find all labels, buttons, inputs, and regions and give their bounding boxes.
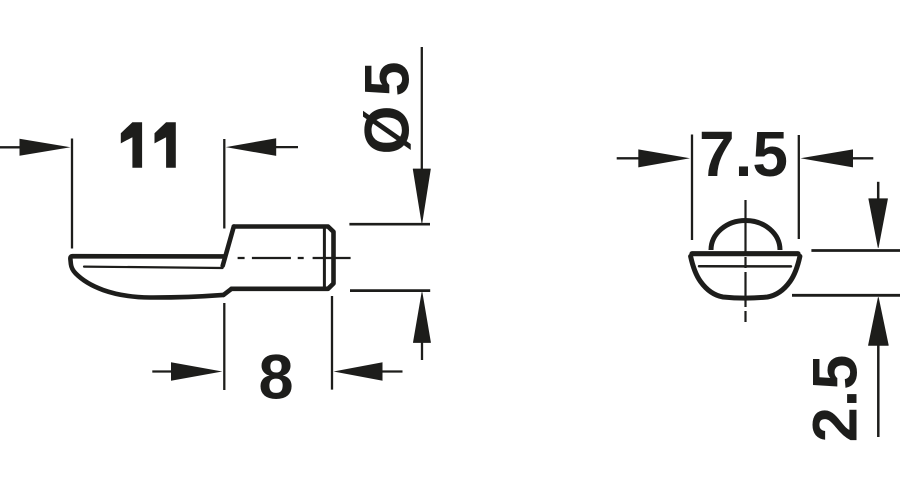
vertical centerline (dash-dot)	[744, 200, 746, 322]
dim 7.5: left extension line	[691, 135, 693, 241]
dim 11: left arrow	[0, 139, 71, 156]
dim 2.5: top arrow (down)	[869, 182, 888, 248]
dim 8: left arrow	[152, 362, 222, 380]
dim Ø5: bottom extension line	[350, 289, 430, 292]
part outline: spoon body	[223, 227, 234, 266]
dim 7.5: right arrow	[801, 149, 874, 167]
centerline of cylinder (dash-dot)	[238, 257, 351, 259]
dim 11: label "11"	[121, 122, 176, 168]
dim 8: left extension line	[223, 303, 225, 390]
dim Ø5: bottom arrow (up)	[413, 293, 430, 361]
cylinder outline	[232, 227, 334, 289]
svg-text:8: 8	[258, 343, 293, 413]
bowl body	[691, 256, 800, 298]
spoon inner thin line	[84, 267, 223, 268]
bowl inner lip line	[699, 265, 791, 268]
dim 11: right extension line	[223, 139, 225, 229]
dim 8: right arrow	[334, 362, 403, 380]
dim 11: left extension line	[71, 139, 73, 249]
dim 7.5: left arrow	[617, 149, 690, 167]
dim 2.5: bottom arrow (up)	[869, 298, 889, 438]
dome (half ball)	[711, 220, 780, 250]
dim 7.5: right extension line	[798, 135, 800, 239]
dim Ø5: top arrow (down)	[413, 47, 430, 223]
svg-text:7.5: 7.5	[699, 118, 788, 190]
dim 11: right arrow	[226, 138, 298, 156]
rim plate	[692, 251, 798, 256]
svg-text:Ø5: Ø5	[353, 52, 423, 154]
dim 2.5: top extension line	[811, 249, 900, 252]
cylinder end chamfer line	[323, 228, 326, 287]
dim 8: right extension line	[331, 296, 333, 390]
step from spoon to cylinder bottom	[224, 289, 232, 295]
dim Ø5: top extension line	[349, 223, 430, 226]
svg-text:2.5: 2.5	[801, 355, 871, 443]
dim 2.5: bottom extension line	[792, 294, 900, 297]
part outline: spoon top edge	[70, 256, 224, 297]
